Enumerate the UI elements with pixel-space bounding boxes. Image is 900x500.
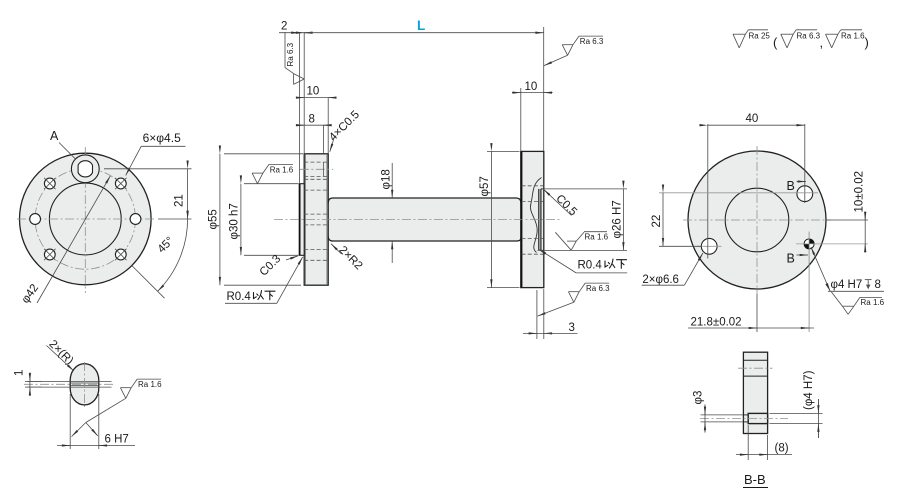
svg-text:B: B xyxy=(787,252,795,266)
groove lines outer xyxy=(27,380,112,382)
svg-text:(8): (8) xyxy=(775,443,789,455)
bolt hole 45deg xyxy=(115,178,126,189)
bolt hole 135deg xyxy=(44,178,55,189)
svg-text:10±0.02: 10±0.02 xyxy=(854,171,866,213)
dim phi26 H7 xyxy=(622,189,624,251)
main centerline xyxy=(274,219,560,221)
right flange face thick line xyxy=(521,151,523,287)
centerline extension right xyxy=(826,219,868,221)
dim 3 extensions xyxy=(536,290,538,339)
bolt hole 0deg xyxy=(130,214,141,225)
centerline horizontal xyxy=(17,218,156,220)
svg-text:10: 10 xyxy=(307,86,320,98)
Ra 1.6 symbol xyxy=(826,30,863,48)
svg-text:21: 21 xyxy=(174,194,186,207)
Ra 6.3 symbol xyxy=(781,30,817,48)
hole phi4 H7 filled xyxy=(804,239,814,249)
dim phi57 xyxy=(490,151,492,287)
dim phi55 xyxy=(219,154,221,285)
svg-text:Ra 25: Ra 25 xyxy=(749,32,771,41)
section body xyxy=(743,352,767,433)
svg-text:2×φ6.6: 2×φ6.6 xyxy=(642,274,679,286)
svg-text:φ4 H7: φ4 H7 xyxy=(831,279,863,291)
detail hole body xyxy=(70,364,99,405)
detail centerline vertical xyxy=(84,362,86,407)
phi3 hole lines xyxy=(743,414,748,416)
Ra 1.6 symbol mid xyxy=(555,232,607,251)
bolt hole 225deg xyxy=(44,249,55,260)
centerline horizontal xyxy=(683,219,831,221)
hidden lines left flange holes xyxy=(304,162,328,260)
svg-text:φ30 h7: φ30 h7 xyxy=(229,203,241,239)
leader R0.4 left xyxy=(225,302,277,304)
hole B top phi6.6 xyxy=(797,186,813,202)
dim 40 extensions xyxy=(707,124,709,259)
dim (phi4 H7) extensions xyxy=(770,412,823,414)
dim (phi4 H7) xyxy=(817,399,819,438)
svg-text:φ26 H7: φ26 H7 xyxy=(612,200,624,238)
dim (8) xyxy=(736,454,792,456)
phi4 hole axis xyxy=(700,418,788,420)
hole A outer circle xyxy=(71,155,99,183)
shaft outline xyxy=(328,198,521,203)
hidden lines right flange holes xyxy=(522,186,544,254)
svg-text:Ra 1.6: Ra 1.6 xyxy=(270,165,294,174)
leader C0.3 xyxy=(286,256,298,260)
svg-text:Ra 6.3: Ra 6.3 xyxy=(580,37,604,46)
dim phi57 extensions xyxy=(487,150,520,152)
leader 6x phi4.5 xyxy=(126,146,142,175)
leader phi42 xyxy=(37,176,110,303)
svg-text:φ3: φ3 xyxy=(693,391,705,405)
Ra 6.3 right symbol xyxy=(562,36,603,55)
svg-text:3: 3 xyxy=(569,322,575,334)
leader 2xR2 xyxy=(331,244,342,254)
hole A depth line xyxy=(322,162,324,176)
hole bottom-left phi6.6 xyxy=(701,238,717,254)
svg-text:A: A xyxy=(50,129,59,143)
dim phi18 xyxy=(391,163,393,198)
svg-text:Ra 6.3: Ra 6.3 xyxy=(797,32,821,41)
dim 8 xyxy=(297,124,332,126)
dim (8) extensions xyxy=(747,425,749,460)
svg-text:): ) xyxy=(865,35,869,50)
dim 10 right xyxy=(512,92,553,94)
phi4 pocket xyxy=(748,413,767,423)
svg-text:2: 2 xyxy=(281,21,287,33)
svg-text:8: 8 xyxy=(875,279,881,291)
dim 3 xyxy=(523,332,544,334)
dim phi3 xyxy=(704,405,706,433)
arrow B bottom xyxy=(797,254,809,256)
dim 45deg arc xyxy=(158,219,188,291)
hole bottom-left cross xyxy=(697,245,722,247)
left flange body phi55 xyxy=(304,154,328,285)
leader C0.5 xyxy=(544,189,572,215)
dim 21 xyxy=(187,169,189,219)
recess bore phi26 walls xyxy=(538,189,540,251)
groove lines inner xyxy=(70,382,99,384)
shaft phi18 body xyxy=(328,198,521,241)
dim 21 extension lines xyxy=(104,168,192,170)
dim L xyxy=(304,32,544,34)
svg-text:1: 1 xyxy=(14,370,26,376)
centerline vertical extension down xyxy=(756,294,758,332)
svg-text:φ18: φ18 xyxy=(381,169,393,189)
dim phi55 extensions xyxy=(224,153,303,155)
svg-text:(: ( xyxy=(773,35,778,50)
Ra 1.6 symbol xyxy=(120,379,161,398)
svg-text:(φ4 H7): (φ4 H7) xyxy=(803,370,815,410)
dim 1 arrows xyxy=(29,373,31,397)
leader phi4 H7 xyxy=(811,247,830,292)
leader 4xC0.5 xyxy=(330,137,335,152)
svg-text:6 H7: 6 H7 xyxy=(105,434,129,446)
svg-text:R0.4: R0.4 xyxy=(578,260,603,272)
dim 10+-0.02 xyxy=(864,213,866,252)
Ra 6.3 bottom symbol xyxy=(568,283,609,302)
phi4 hole centerlines xyxy=(796,243,868,245)
svg-text:6×φ4.5: 6×φ4.5 xyxy=(143,131,181,145)
svg-text:10: 10 xyxy=(525,81,538,93)
bore circle phi30 xyxy=(49,183,121,255)
radial line 45deg xyxy=(132,266,165,299)
svg-text:Ra 1.6: Ra 1.6 xyxy=(138,380,162,389)
Ra 6.3 right leader xyxy=(544,55,568,65)
svg-text:φ57: φ57 xyxy=(479,176,491,196)
svg-text:B-B: B-B xyxy=(744,472,766,487)
dim 10 right side extensions xyxy=(520,88,522,151)
flange body phi55 xyxy=(20,153,152,285)
Ra 1.6 symbol on phi30 line xyxy=(252,165,293,184)
dim 2 xyxy=(279,32,313,34)
svg-text:22: 22 xyxy=(651,215,663,228)
Ra1.6 leader split arrows xyxy=(72,423,86,437)
dim 10 right extension xyxy=(327,98,329,154)
leader Ra6.3 bottom xyxy=(538,302,574,316)
svg-text:φ55: φ55 xyxy=(208,209,220,229)
right flange body phi57 xyxy=(521,151,544,287)
svg-text:L: L xyxy=(417,18,425,33)
dim 10 left xyxy=(296,97,337,99)
dim phi30 h7 xyxy=(240,184,242,256)
dim 6H7 extension lines xyxy=(69,394,71,449)
dim 22 extensions xyxy=(659,192,818,194)
svg-text:8: 8 xyxy=(309,114,315,126)
svg-text:Ra 6.3: Ra 6.3 xyxy=(286,42,295,66)
dim 40 xyxy=(708,124,805,126)
leader 2x phi6.6 xyxy=(684,253,703,285)
dim 6H7 line xyxy=(57,445,135,447)
bolt hole 180deg xyxy=(30,214,41,225)
leader 2x(R) xyxy=(47,346,74,371)
broken-out section wavy line xyxy=(530,178,541,253)
svg-text:Ra 1.6: Ra 1.6 xyxy=(841,32,865,41)
detail centerline horizontal xyxy=(24,383,114,385)
cross marks diagonal holes xyxy=(44,178,126,260)
leader A xyxy=(59,143,75,159)
dim 22 xyxy=(662,193,664,247)
hub face thick line xyxy=(299,184,301,256)
flange body phi57 xyxy=(688,151,826,289)
svg-text:40: 40 xyxy=(746,113,759,125)
left hub 2mm phi30 xyxy=(300,184,305,256)
dim phi26H7 extensions xyxy=(542,188,627,190)
hole A 6H7 with flats xyxy=(78,161,92,177)
svg-text:Ra 1.6: Ra 1.6 xyxy=(585,232,609,241)
centerline vertical xyxy=(84,147,86,293)
phi6.6 hole section lines xyxy=(743,359,767,361)
dim phi3 extensions xyxy=(701,414,744,416)
Ra 6.3 rotated symbol on left face xyxy=(285,32,304,84)
leader R0.4 right xyxy=(576,272,627,274)
hole A axis centerline xyxy=(300,168,333,170)
arrow B top xyxy=(797,181,807,183)
svg-text:Ra 1.6: Ra 1.6 xyxy=(861,298,885,307)
dim 2 extension lines xyxy=(299,33,301,183)
dim 8 extension xyxy=(322,125,324,153)
svg-text:B: B xyxy=(787,179,795,193)
svg-text:,: , xyxy=(820,35,824,50)
bore circle phi26 xyxy=(725,188,789,252)
dim phi30h7 extensions xyxy=(244,183,299,185)
bolt hole 315deg xyxy=(115,249,126,260)
svg-text:21.8±0.02: 21.8±0.02 xyxy=(691,317,742,329)
dim 1 extension xyxy=(25,380,42,382)
dim 21.8+-0.02 xyxy=(688,327,814,329)
Ra 25 symbol xyxy=(733,30,768,48)
bolt circle phi42 centerline xyxy=(35,169,135,269)
centerline vertical xyxy=(756,146,758,294)
Ra 1.6 symbol lower right xyxy=(831,292,842,306)
svg-text:R0.4: R0.4 xyxy=(227,291,252,303)
left flange chamfer lines xyxy=(305,154,307,285)
phi6.6 hole axis xyxy=(738,367,773,369)
svg-text:Ra 6.3: Ra 6.3 xyxy=(586,284,610,293)
